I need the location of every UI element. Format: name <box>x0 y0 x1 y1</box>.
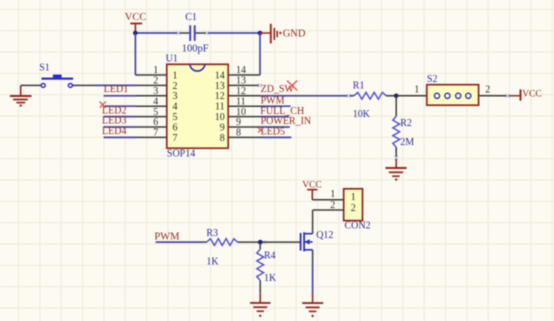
node PWM (pin 11 wire) <box>260 96 291 107</box>
svg-text:LED2: LED2 <box>102 105 126 116</box>
svg-text:4: 4 <box>173 102 178 113</box>
node LED4 (pin 7 wire) <box>102 126 136 137</box>
node LED3 (pin 6 wire) <box>102 116 136 127</box>
wire VCC junction down to pin 1 <box>134 33 136 75</box>
svg-text:100pF: 100pF <box>182 43 209 54</box>
svg-text:LED4: LED4 <box>102 126 126 137</box>
power port VCC (bottom, for CON2) <box>302 180 322 199</box>
svg-text:CON2: CON2 <box>345 220 371 231</box>
resistor R3 <box>202 228 260 268</box>
svg-text:8: 8 <box>220 133 225 144</box>
pin numbers U1 inside left <box>173 70 178 143</box>
pin stubs U1 right (pins 14-8) <box>228 75 260 137</box>
wire-end marker R2 bottom <box>394 156 398 160</box>
svg-text:1: 1 <box>351 192 356 203</box>
wire C1 to GND junction <box>207 32 261 34</box>
svg-text:FULL_CH: FULL_CH <box>260 106 304 117</box>
svg-text:SOP14: SOP14 <box>167 149 195 160</box>
svg-text:11: 11 <box>236 96 246 107</box>
capacitor C1 <box>179 12 209 55</box>
svg-text:VCC: VCC <box>125 12 147 23</box>
svg-text:2: 2 <box>351 203 356 214</box>
svg-text:1: 1 <box>153 65 158 76</box>
svg-text:LED5: LED5 <box>261 127 285 138</box>
connector S2 <box>396 74 509 105</box>
svg-text:Q12: Q12 <box>316 230 333 241</box>
svg-text:2: 2 <box>485 84 490 95</box>
svg-text:8: 8 <box>236 128 241 139</box>
wire pin 4 (no ERC cross) <box>100 102 136 108</box>
svg-text:R3: R3 <box>206 228 218 239</box>
op-amp U1 chip body SOP14 <box>166 54 229 160</box>
svg-text:1: 1 <box>330 189 335 200</box>
svg-text:13: 13 <box>215 81 225 92</box>
wire VCC rail to C1 <box>135 32 178 34</box>
ground (R2) <box>386 159 407 181</box>
transistor Q12 (NMOS) <box>301 230 334 251</box>
wire Q12 source down to ground <box>312 250 314 262</box>
junction GND rail <box>258 31 263 36</box>
pin stubs U1 left (pins 1-7) <box>135 75 166 137</box>
power port VCC (top) <box>125 12 147 33</box>
svg-text:1K: 1K <box>264 273 277 284</box>
svg-text:S1: S1 <box>39 62 50 73</box>
wire-end marker S2 pin2 <box>506 94 510 98</box>
ground (S1) <box>10 85 32 106</box>
svg-text:4: 4 <box>153 96 158 107</box>
svg-text:10: 10 <box>215 112 225 123</box>
wire PWM to R3 <box>156 241 202 243</box>
wire Q12 drain up to CON2 pin 2 <box>312 210 314 234</box>
svg-text:14: 14 <box>215 70 225 81</box>
resistor R2 <box>393 96 414 159</box>
svg-text:2: 2 <box>173 81 178 92</box>
wire CON2 pin 2 to Q12 drain <box>313 209 344 211</box>
svg-text:2M: 2M <box>400 137 414 148</box>
junction VCC rail <box>133 31 138 36</box>
switch S1 <box>21 62 95 87</box>
svg-text:6: 6 <box>173 122 178 133</box>
svg-text:5: 5 <box>173 112 178 123</box>
node POWER_IN (pin 9 wire) <box>260 116 311 127</box>
svg-text:10: 10 <box>236 107 246 118</box>
junction R3/R4 <box>258 240 263 245</box>
svg-text:VCC: VCC <box>522 90 542 100</box>
ground (Q12 source) <box>302 294 323 318</box>
svg-text:5: 5 <box>153 107 158 118</box>
svg-text:9: 9 <box>220 122 225 133</box>
svg-text:3: 3 <box>173 91 178 102</box>
svg-text:C1: C1 <box>185 12 197 23</box>
svg-text:LED1: LED1 <box>104 84 128 95</box>
pin numbers U1 outside right <box>236 65 246 138</box>
svg-text:10K: 10K <box>353 109 371 120</box>
connector CON2 <box>330 189 370 232</box>
wire VCC to CON2 pin 1 <box>312 199 343 201</box>
junction R1/R2/S2 <box>394 94 399 99</box>
svg-text:14: 14 <box>236 65 246 76</box>
svg-text:6: 6 <box>153 117 158 128</box>
power port GND (bar style) <box>260 24 306 44</box>
svg-text:R4: R4 <box>264 251 276 262</box>
resistor R1 <box>348 81 396 120</box>
svg-text:S2: S2 <box>427 74 438 85</box>
node FULL_CH (pin 10 wire) <box>260 106 304 117</box>
svg-text:13: 13 <box>236 76 246 87</box>
svg-text:7: 7 <box>153 128 158 139</box>
svg-text:2: 2 <box>153 76 158 87</box>
node LED1 (pin 3 wire) <box>104 84 137 96</box>
svg-text:PWM: PWM <box>154 231 180 242</box>
svg-text:11: 11 <box>215 102 225 113</box>
node LED5 (pin 8 wire, small cross) <box>258 127 291 138</box>
svg-text:7: 7 <box>173 133 178 144</box>
svg-text:12: 12 <box>215 91 225 102</box>
svg-text:2: 2 <box>330 200 335 211</box>
svg-text:GND: GND <box>283 29 306 40</box>
node LED2 (pin 5 wire) <box>102 105 136 116</box>
pin numbers U1 outside left <box>153 65 158 138</box>
svg-text:1K: 1K <box>206 257 219 268</box>
svg-text:ZD_SW: ZD_SW <box>261 84 295 95</box>
pin numbers U1 inside right <box>215 70 225 143</box>
svg-text:U1: U1 <box>166 54 178 65</box>
ground (R4) <box>250 293 270 317</box>
svg-text:R1: R1 <box>353 81 365 92</box>
wire R3 to Q12 gate <box>260 241 300 243</box>
power port VCC (right, bar style) <box>509 90 542 101</box>
svg-text:9: 9 <box>236 117 241 128</box>
svg-text:1: 1 <box>173 70 178 81</box>
node ZD_SW (pin 12 wire to R1) <box>260 81 348 96</box>
wire GND junction down to pin 14 <box>259 33 261 75</box>
svg-text:3: 3 <box>153 86 158 97</box>
resistor R4 <box>257 242 277 293</box>
svg-text:12: 12 <box>236 86 246 97</box>
svg-text:1: 1 <box>414 84 419 95</box>
svg-text:R2: R2 <box>400 118 412 129</box>
wire S1 to pin 2 <box>95 84 136 86</box>
wire-end markers (faint) <box>176 31 180 35</box>
